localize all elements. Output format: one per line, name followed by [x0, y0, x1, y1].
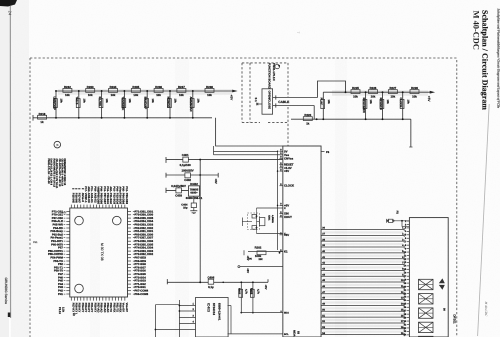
svg-text:GRUNDIG Service: GRUNDIG Service: [4, 278, 8, 305]
